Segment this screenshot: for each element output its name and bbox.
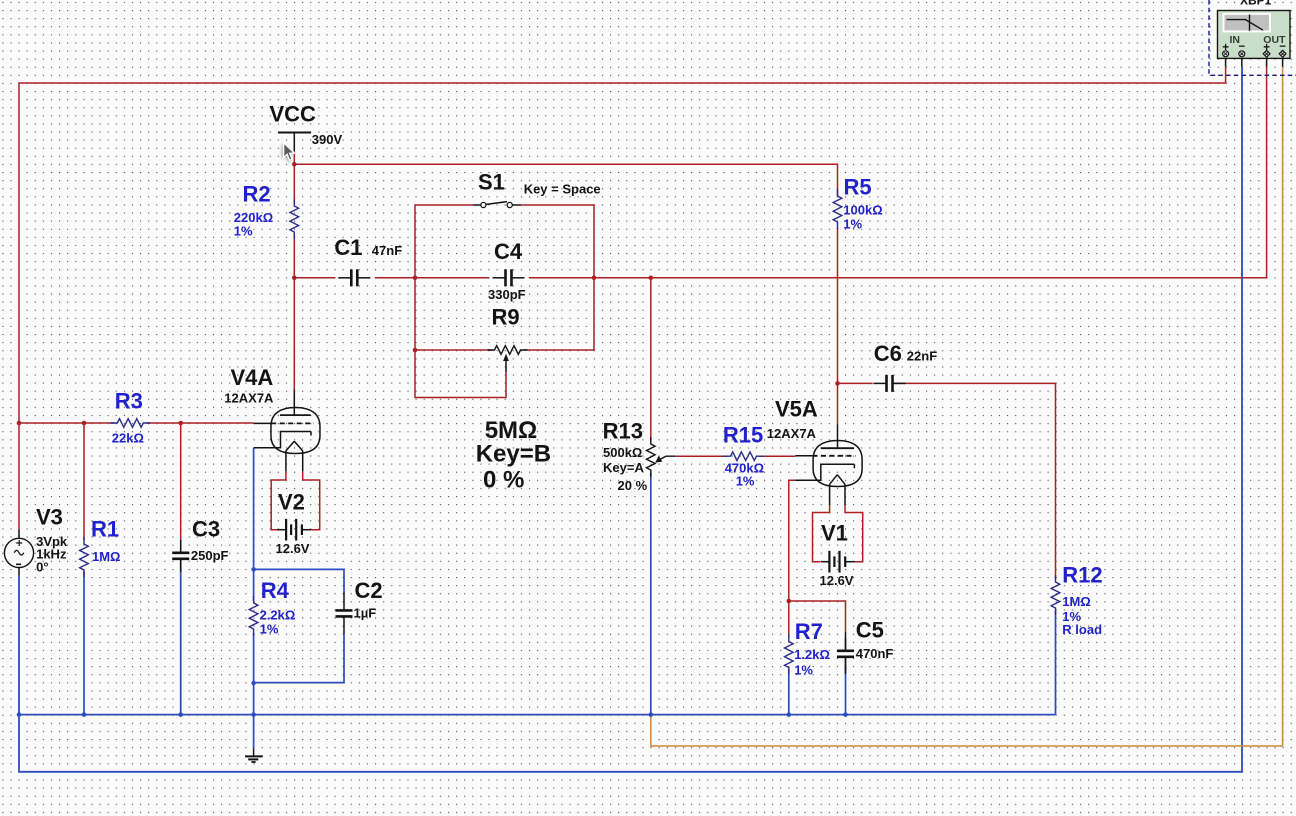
wire C6 right to R12 top [894, 383, 1056, 579]
node R2 bottom / mid rail [292, 276, 297, 281]
svg-text:390V: 390V [312, 132, 343, 147]
triode V4A 12AX7A [224, 365, 320, 471]
svg-text:250pF: 250pF [191, 548, 229, 563]
wire R7 bottom [788, 669, 790, 715]
svg-text:12AX7A: 12AX7A [224, 391, 274, 406]
wire VCC rail to R5 [294, 164, 837, 196]
wire R2 top link [293, 164, 295, 203]
svg-text:1µF: 1µF [354, 606, 377, 621]
potentiometer R13 500k [603, 419, 676, 493]
resistor R4 2.2k [249, 578, 295, 637]
svg-text:1%: 1% [843, 217, 862, 232]
node R7 bottom on bus [787, 712, 792, 717]
resistor R3 22k [110, 388, 150, 445]
wire V5A cathode down [789, 480, 796, 601]
svg-text:V1: V1 [821, 520, 848, 545]
capacitor C3 250pF [172, 516, 228, 572]
mouse cursor [282, 143, 294, 162]
svg-text:R7: R7 [795, 619, 823, 644]
svg-text:S1: S1 [478, 170, 505, 195]
svg-text:1%: 1% [736, 474, 755, 489]
node R13 bottom on bus [649, 712, 654, 717]
svg-text:C4: C4 [494, 239, 523, 264]
wire V4A cathode to ground lower [253, 633, 255, 748]
node C6 / R5 / V5A plate [835, 381, 840, 386]
wire R1 top [83, 423, 85, 540]
node VCC rail junction [292, 162, 297, 167]
svg-text:20 %: 20 % [618, 478, 648, 493]
wire R13 bottom [650, 473, 652, 715]
svg-text:R4: R4 [261, 578, 290, 603]
wire mid rail segment B [375, 277, 489, 279]
svg-text:R12: R12 [1062, 562, 1102, 587]
wire V4A cathode to ground upper [253, 448, 255, 601]
wire C3 bottom [180, 560, 182, 715]
VCC power symbol [270, 102, 343, 152]
svg-text:12.6V: 12.6V [820, 573, 854, 588]
svg-text:C6: C6 [874, 341, 902, 366]
instrument XBP1 Bode plotter [1218, 0, 1291, 67]
svg-text:2.2kΩ: 2.2kΩ [260, 607, 296, 622]
svg-text:Key=B: Key=B [476, 441, 551, 468]
resistor R1 1M [80, 516, 121, 577]
svg-text:Key = Space: Key = Space [524, 182, 601, 197]
wire XBP1 OUT- orange return [651, 67, 1283, 746]
svg-text:R5: R5 [844, 174, 872, 199]
node C3 bottom on bus [178, 712, 183, 717]
wire top rail from XBP1 IN+ to top-left corner and down left edge [19, 67, 1226, 423]
svg-text:1MΩ: 1MΩ [92, 549, 120, 564]
node C3 top on R3 rail [178, 421, 183, 426]
resistor R7 1.2k [785, 619, 830, 678]
triode V5A 12AX7A [767, 396, 862, 505]
wire R4/C2 box top [254, 569, 344, 592]
resistor R15 470k [723, 422, 764, 488]
svg-text:Key=A: Key=A [603, 460, 644, 475]
svg-text:500kΩ: 500kΩ [603, 445, 642, 460]
wire S1 right side down to R9 right lead [521, 205, 594, 350]
svg-text:XBP1: XBP1 [1240, 0, 1272, 8]
svg-text:1.2kΩ: 1.2kΩ [794, 647, 830, 662]
svg-text:R15: R15 [723, 422, 763, 447]
capacitor C6 22nF [874, 341, 938, 392]
resistor R2 220k [234, 182, 299, 240]
wire R4/C2 box bottom [254, 634, 344, 683]
AC source V3 [4, 504, 68, 576]
resistor R12 1M R load [1051, 562, 1102, 637]
svg-text:0°: 0° [36, 559, 48, 574]
svg-text:47nF: 47nF [372, 243, 402, 258]
node S1 box right on mid rail [592, 276, 597, 281]
svg-text:VCC: VCC [270, 102, 317, 127]
svg-text:330pF: 330pF [488, 287, 526, 302]
svg-text:R2: R2 [243, 182, 271, 207]
capacitor C4 330pF [488, 239, 526, 302]
wire R7 top link [788, 601, 790, 637]
switch S1 [474, 170, 601, 208]
node bus left corner [17, 712, 22, 717]
svg-text:R13: R13 [603, 419, 643, 444]
node R9 left lead tee [413, 348, 418, 353]
wire R9 left lead [415, 349, 492, 351]
svg-text:22kΩ: 22kΩ [112, 431, 144, 446]
svg-text:R load: R load [1062, 622, 1102, 637]
svg-text:R3: R3 [115, 388, 143, 413]
svg-text:12AX7A: 12AX7A [767, 426, 817, 441]
wire mid rail segment C to XBP1 OUT+ [529, 67, 1267, 278]
node V3 top on R3 rail [17, 421, 22, 426]
svg-text:1%: 1% [794, 663, 813, 678]
node R13 top on mid rail [649, 276, 654, 281]
wire R2 bottom to mid rail [293, 235, 295, 278]
node C5 bottom on bus [843, 712, 848, 717]
capacitor C1 47nF [334, 235, 402, 286]
svg-text:V3: V3 [36, 504, 63, 529]
node S1 box left on mid rail [413, 276, 418, 281]
svg-text:V2: V2 [278, 490, 305, 515]
wire R3 rail right to V4A grid [146, 422, 253, 424]
potentiometer R9 5M [476, 305, 551, 494]
node R1 bottom on bus [82, 712, 87, 717]
svg-text:0 %: 0 % [483, 467, 524, 494]
wire C3 top [180, 423, 182, 551]
wire V4A plate drop [293, 278, 295, 389]
wire C6 left link [838, 382, 873, 384]
wire R13 top from mid rail [650, 278, 652, 441]
svg-text:1MΩ: 1MΩ [1062, 594, 1090, 609]
svg-text:R1: R1 [91, 516, 119, 541]
heater supply V2 12.6V [271, 471, 320, 556]
wire mid rail segment A (node after C1) [294, 277, 335, 279]
svg-text:1%: 1% [260, 622, 279, 637]
wire C5 bottom [845, 666, 847, 715]
svg-text:C3: C3 [192, 516, 220, 541]
heater supply V1 12.6V [813, 505, 863, 588]
wire R13 wiper to R15 [675, 455, 727, 457]
capacitor C2 1uF [336, 578, 383, 634]
svg-text:470nF: 470nF [856, 646, 894, 661]
resistor R5 100k [833, 174, 882, 231]
svg-text:12.6V: 12.6V [276, 541, 310, 556]
capacitor C5 470nF [837, 617, 893, 674]
node R1 top on R3 rail [82, 421, 87, 426]
node V5A cathode / R7 / C5 [787, 599, 792, 604]
svg-text:1%: 1% [234, 224, 253, 239]
svg-text:C5: C5 [856, 617, 884, 642]
wire ground bus [19, 714, 1056, 716]
svg-text:V5A: V5A [775, 396, 818, 421]
svg-text:C1: C1 [334, 235, 362, 260]
node R4/C2 box bottom tee [251, 681, 256, 686]
instrument link dashed line [1209, 0, 1296, 75]
ground [245, 748, 263, 762]
svg-text:V4A: V4A [231, 365, 274, 390]
wire cathode node to C5 top [789, 601, 846, 632]
wire S1 box left side and bottom to R9 wiper [415, 205, 506, 398]
svg-text:22nF: 22nF [907, 349, 937, 364]
wire R1 bottom [83, 572, 85, 715]
wire R12 bottom [1055, 611, 1057, 715]
node cathode wire on bus [251, 712, 256, 717]
svg-text:R9: R9 [492, 305, 520, 330]
svg-text:C2: C2 [355, 578, 383, 603]
wire R5 bottom to C6 node and V5A plate [837, 228, 839, 424]
wire R3 rail left [19, 422, 114, 424]
wire R15 to V5A grid [759, 455, 795, 457]
wire left edge to V3 and R3 rail [18, 423, 20, 531]
wire VCC stub to rail junction [293, 151, 295, 164]
node R4/C2 box top tee [251, 567, 256, 572]
svg-text:100kΩ: 100kΩ [843, 203, 882, 218]
